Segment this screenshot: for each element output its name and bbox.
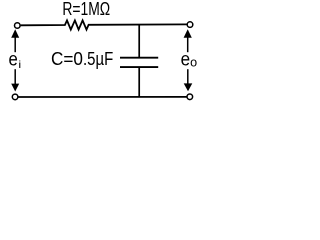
svg-text:C=0: C=0 — [51, 48, 83, 69]
svg-text:e: e — [9, 50, 18, 71]
svg-text:e: e — [181, 50, 191, 71]
svg-text:.5µF: .5µF — [83, 48, 113, 69]
svg-text:R=1MΩ: R=1MΩ — [62, 0, 110, 19]
svg-text:o: o — [190, 56, 197, 70]
svg-text:i: i — [18, 59, 21, 71]
